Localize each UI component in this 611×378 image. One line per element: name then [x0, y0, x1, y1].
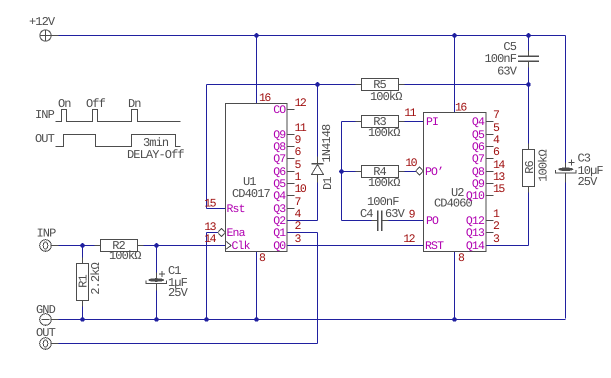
- wire GND rail: [53, 319, 566, 321]
- pin stub U2 Q5: [487, 134, 494, 136]
- svg-text:15: 15: [493, 183, 505, 196]
- svg-text:Q4: Q4: [273, 190, 286, 203]
- svg-text:16: 16: [259, 92, 271, 105]
- wire R5 net horizontal: [207, 84, 529, 86]
- wire C5 top lead: [528, 36, 530, 51]
- lead GND terminal: [52, 319, 59, 321]
- svg-text:100kΩ: 100kΩ: [537, 150, 551, 182]
- pin stub U1 Q7: [288, 158, 295, 160]
- svg-text:D1: D1: [321, 177, 335, 190]
- svg-text:63V: 63V: [497, 65, 518, 79]
- pin stub U1 Q8: [288, 146, 295, 148]
- lead D1: [317, 157, 319, 165]
- pin stub U2 Q8: [487, 171, 494, 173]
- pin stub U1 Q4: [288, 195, 295, 197]
- terminal INP: [40, 240, 52, 252]
- svg-text:100kΩ: 100kΩ: [368, 126, 400, 140]
- svg-text:C4: C4: [360, 207, 373, 221]
- svg-text:12: 12: [403, 233, 415, 246]
- svg-text:Q7: Q7: [472, 153, 484, 166]
- wire R4 net: [342, 171, 424, 173]
- lead R2: [95, 245, 101, 247]
- svg-text:PO’: PO’: [425, 166, 443, 179]
- svg-text:CD4017: CD4017: [232, 187, 271, 201]
- svg-text:Clk: Clk: [232, 240, 251, 253]
- lead +12V supply: [52, 35, 59, 37]
- capacitor C1 body: [148, 278, 164, 282]
- clock marker U1 Clk: [226, 241, 232, 250]
- svg-text:RST: RST: [425, 240, 444, 253]
- svg-text:Q1: Q1: [273, 227, 286, 240]
- svg-text:Dn: Dn: [128, 97, 141, 111]
- diamond Ena pin 13: [218, 229, 225, 237]
- node GND/R1: [80, 317, 85, 322]
- pin stub U1 CO: [288, 109, 295, 111]
- wire Q14 to R6: [487, 245, 529, 247]
- svg-text:12: 12: [295, 97, 307, 110]
- lead C3: [565, 163, 567, 169]
- capacitor C4 plates: [377, 211, 379, 232]
- wire R3 net: [342, 121, 424, 123]
- capacitor C3 body: [558, 168, 573, 172]
- node GND/U1-8: [254, 317, 259, 322]
- resistor R5: [362, 79, 399, 91]
- lead R1: [82, 258, 84, 264]
- svg-text:GND: GND: [36, 303, 56, 317]
- wire INP to Clk: [59, 245, 226, 247]
- wire OUT horizontal: [53, 343, 318, 345]
- node +12V/C5: [526, 33, 531, 38]
- svg-text:100kΩ: 100kΩ: [109, 249, 141, 263]
- waveform OUT trace: [56, 135, 181, 147]
- wire U1 pin16 drop: [256, 36, 258, 104]
- wire Q1 out: [288, 232, 318, 234]
- svg-text:7: 7: [493, 109, 499, 122]
- svg-text:PO: PO: [426, 215, 439, 228]
- diode D1: [312, 165, 324, 175]
- node R2/C1: [154, 243, 159, 248]
- wire +12V top rail: [52, 35, 566, 37]
- wire Rst vertical: [206, 85, 208, 209]
- pin stub U2 Q13: [487, 232, 494, 234]
- lead C1: [156, 273, 158, 279]
- lead INP terminal: [52, 245, 59, 247]
- svg-text:Q13: Q13: [466, 227, 485, 240]
- svg-text:Off: Off: [86, 97, 106, 111]
- svg-text:INP: INP: [35, 108, 55, 122]
- svg-text:On: On: [58, 97, 71, 111]
- svg-text:100kΩ: 100kΩ: [368, 176, 400, 190]
- lead R4: [356, 171, 362, 173]
- svg-text:25V: 25V: [578, 175, 599, 189]
- wire Ena to ground: [206, 233, 208, 320]
- pin stub U1 Q6: [288, 171, 295, 173]
- pin stub U2 Q6: [487, 146, 494, 148]
- svg-text:16: 16: [455, 102, 467, 115]
- lead OUT terminal: [52, 343, 59, 345]
- svg-text:Q0: Q0: [273, 240, 286, 253]
- pin stub U2 Q7: [487, 158, 494, 160]
- svg-text:10: 10: [295, 183, 307, 196]
- svg-text:25V: 25V: [168, 286, 189, 300]
- svg-text:Rst: Rst: [227, 203, 245, 216]
- node R4 trunk: [339, 169, 344, 174]
- lead C4: [372, 220, 378, 222]
- wire +12V right drop to C3: [565, 36, 567, 163]
- svg-text:14: 14: [204, 233, 216, 246]
- node +12V/U1-16: [254, 33, 259, 38]
- node GND/U2-8: [452, 317, 457, 322]
- svg-text:Q4: Q4: [472, 116, 485, 129]
- wire Q2 to D1: [288, 220, 318, 222]
- pin stub U1 Q9: [288, 134, 295, 136]
- svg-text:Ena: Ena: [227, 227, 246, 240]
- node GND/C1: [154, 317, 159, 322]
- resistor R2: [101, 240, 138, 252]
- svg-text:DELAY-Off: DELAY-Off: [127, 148, 184, 162]
- lead C5: [528, 51, 530, 57]
- svg-text:OUT: OUT: [36, 326, 56, 340]
- svg-text:INP: INP: [37, 227, 57, 241]
- node +12V/U2-16: [452, 33, 457, 38]
- diamond PO' pin 10: [416, 167, 423, 175]
- op-amp U2 CD4060 box: [424, 113, 487, 252]
- resistor R6: [523, 150, 535, 187]
- supply symbol +12V: [40, 30, 51, 41]
- terminal GND: [40, 314, 52, 326]
- waveform INP trace: [56, 110, 181, 122]
- wire U2 pin16 drop: [454, 36, 456, 113]
- svg-text:11: 11: [404, 107, 416, 120]
- wire Q0 to RST: [288, 245, 424, 247]
- svg-text:+12V: +12V: [29, 15, 56, 29]
- pin stub U1 Q5: [288, 183, 295, 185]
- pin stub U2 Q4: [487, 121, 494, 123]
- pin stub U2 Q10: [487, 195, 494, 197]
- pin stub U2 Q12: [487, 220, 494, 222]
- svg-text:10: 10: [405, 157, 417, 170]
- lead R3: [356, 121, 362, 123]
- wire C1 branch: [156, 246, 158, 273]
- terminal OUT: [40, 338, 52, 350]
- node INP/R1: [80, 243, 85, 248]
- wire U2 pin8 drop: [454, 252, 456, 320]
- node GND/Ena: [204, 317, 209, 322]
- resistor R1: [77, 264, 89, 301]
- svg-text:1N4148: 1N4148: [320, 124, 334, 163]
- svg-text:100kΩ: 100kΩ: [370, 90, 402, 104]
- wire U1 pin8 drop: [256, 252, 258, 320]
- svg-text:OUT: OUT: [35, 132, 55, 146]
- svg-text:Q7: Q7: [273, 153, 285, 166]
- svg-text:CO: CO: [273, 104, 286, 117]
- svg-text:R6: R6: [523, 161, 537, 174]
- wire OUT vertical: [317, 233, 319, 344]
- wire R1 branch: [82, 246, 84, 320]
- op-amp U1 CD4017 box: [226, 104, 288, 252]
- wire D1 column: [317, 85, 319, 157]
- svg-text:13: 13: [204, 221, 216, 234]
- wire Ena stub: [207, 232, 220, 234]
- resistor R4: [362, 166, 399, 178]
- wire C4 net: [342, 220, 372, 222]
- svg-text:2.2kΩ: 2.2kΩ: [89, 263, 103, 295]
- node R5/D1: [315, 82, 320, 87]
- pin stub U2 Q9: [487, 183, 494, 185]
- lead R6: [528, 144, 530, 150]
- pin stub U1 Q3: [288, 208, 295, 210]
- svg-text:Q14: Q14: [466, 240, 485, 253]
- resistor R3: [362, 116, 399, 128]
- wire Rst to U1: [207, 208, 226, 210]
- svg-text:PI: PI: [426, 116, 438, 129]
- svg-text:63V: 63V: [385, 207, 406, 221]
- wire R6 column: [528, 85, 530, 144]
- wire C5 bottom to node: [528, 68, 530, 85]
- wire trunk R3-R4-C4: [341, 122, 343, 221]
- svg-text:Q10: Q10: [466, 190, 485, 203]
- node C5/R6: [526, 82, 531, 87]
- lead R5: [356, 84, 362, 86]
- svg-text:15: 15: [204, 198, 216, 211]
- capacitor C5 plates: [518, 56, 539, 58]
